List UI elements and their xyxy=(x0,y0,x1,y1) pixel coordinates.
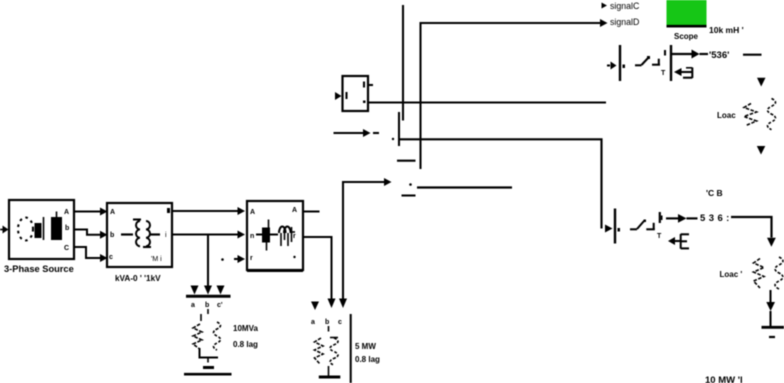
down arrow into load 2 xyxy=(767,238,776,247)
wire source C to transformer xyxy=(74,247,108,262)
wire load 2 internal xyxy=(769,290,771,302)
3-phase source port label B xyxy=(65,225,69,232)
load 2 inductor xyxy=(775,257,783,289)
load A inductor leg xyxy=(214,322,221,350)
goto tag signalC xyxy=(602,1,640,11)
input arrow into source xyxy=(0,226,9,234)
impedance tag 536 (CB2 row) xyxy=(700,213,730,224)
goto tag signalD xyxy=(610,17,639,27)
svg-text:kVA-0 ' '1kV: kVA-0 ' '1kV xyxy=(115,274,161,283)
breaker CB2 control port T xyxy=(657,233,662,240)
impedance tag 536 (CB1 row) xyxy=(709,50,729,61)
svg-text:10k mH ': 10k mH ' xyxy=(709,25,744,35)
3-phase source port label A xyxy=(64,209,69,216)
measurement subsystem output stub xyxy=(368,84,373,86)
breaker CB2 label text CB xyxy=(706,188,723,198)
load B resistor leg xyxy=(315,338,324,364)
breaker CB1 switch blade xyxy=(635,56,660,65)
junction dot near bus xyxy=(392,138,394,140)
vertical stub line A xyxy=(402,5,404,121)
load A ground xyxy=(184,368,232,375)
svg-text:T: T xyxy=(661,70,666,77)
load 2 resistor xyxy=(754,259,765,289)
svg-text:a: a xyxy=(311,319,315,326)
svg-text:0.8 lag: 0.8 lag xyxy=(355,355,380,364)
svg-text:c': c' xyxy=(217,302,223,309)
breaker CB1 input arrow xyxy=(607,62,617,70)
branch output B wire down to load B xyxy=(303,237,336,308)
short segment under bus xyxy=(397,160,416,162)
load B port labels a b c xyxy=(311,319,342,326)
svg-text:A: A xyxy=(110,209,115,216)
wire transformer B to branch with junction to load xyxy=(172,231,245,239)
breaker CB1 left bar xyxy=(619,45,621,81)
breaker CB2 node dot xyxy=(618,228,621,232)
bus wire to breaker CB2 xyxy=(399,139,613,232)
long wire measurement output to right xyxy=(368,101,606,103)
scope label xyxy=(674,32,699,41)
svg-text:i: i xyxy=(165,232,167,239)
down arrow out of load 2 xyxy=(766,302,775,311)
svg-text:Loac ': Loac ' xyxy=(720,270,743,279)
svg-text:b: b xyxy=(325,319,329,326)
3-phase source V1 icon xyxy=(18,212,62,241)
transformer T1 port label A xyxy=(110,209,115,216)
load 2 rating text cut at bottom xyxy=(705,375,743,383)
breaker CB1 node dot xyxy=(623,65,626,69)
svg-text:b: b xyxy=(65,225,69,232)
3-phase source V1 block outline xyxy=(9,200,74,259)
transformer T1 icon windings xyxy=(121,220,160,248)
wire after tag down to load 2 xyxy=(731,217,772,238)
breaker CB1 output wire with arrow xyxy=(672,50,708,59)
wire after 536 tag xyxy=(743,54,762,56)
svg-text:a: a xyxy=(191,302,195,309)
breaker CB2 switch blade xyxy=(630,220,655,230)
ground 3 xyxy=(762,327,784,337)
svg-text:Scope: Scope xyxy=(674,32,699,41)
wire to ground 3 xyxy=(769,311,771,326)
svg-text:n: n xyxy=(250,233,254,240)
measurement subsystem block xyxy=(343,76,369,111)
branch block input-c stub arrow xyxy=(221,255,245,263)
RLC branch icon inductor xyxy=(279,226,295,246)
measurement subsystem port ticks xyxy=(347,82,366,104)
svg-text:A: A xyxy=(292,207,297,214)
load A top bus bar xyxy=(186,295,231,298)
svg-text:b: b xyxy=(205,302,209,309)
branch output A stub xyxy=(303,211,320,213)
breaker CB1 control port T xyxy=(661,70,666,77)
breaker CB2 port tick xyxy=(661,216,663,221)
RLC branch port labels xyxy=(250,207,297,262)
svg-text:signalD: signalD xyxy=(610,17,639,27)
svg-text:10 MW 'l: 10 MW 'l xyxy=(705,375,743,383)
transformer T1 port label c xyxy=(109,254,113,261)
arrow into fault block xyxy=(334,129,380,137)
load A rating text 0.8 lag xyxy=(233,340,258,349)
svg-text:'C B: 'C B xyxy=(706,188,723,198)
svg-text:A: A xyxy=(64,209,69,216)
wire source A to transformer xyxy=(74,208,108,216)
breaker CB2 output wire with arrow xyxy=(666,214,698,223)
transformer T1 block outline xyxy=(107,203,172,267)
svg-text:r: r xyxy=(293,233,296,240)
load 1 label xyxy=(717,111,736,120)
wire segment to the right xyxy=(417,186,512,188)
node dot near measurement row xyxy=(409,183,412,186)
load B ground bar xyxy=(319,376,341,379)
load 1 resistor xyxy=(744,104,757,126)
load B phase a floating arrow xyxy=(311,302,319,311)
transformer T1 port label b xyxy=(110,232,114,239)
load A resistor leg xyxy=(193,314,202,349)
svg-text:5 MW: 5 MW xyxy=(355,342,376,351)
load B rating text 0.8 lag xyxy=(355,355,380,364)
breaker CB2 control from-tag xyxy=(668,234,689,249)
svg-text:b: b xyxy=(110,232,114,239)
load B connector tick xyxy=(328,326,330,332)
transformer T1 right port marks xyxy=(151,208,170,263)
3-phase source label xyxy=(4,264,74,274)
short segment lower xyxy=(402,194,416,196)
wire junction drop to load A xyxy=(207,235,209,287)
load A port labels a b c xyxy=(191,302,223,309)
breaker CB1 control from-tag xyxy=(674,68,692,79)
three-phase series RLC branch block outline xyxy=(247,201,303,271)
svg-text:'M i: 'M i xyxy=(151,256,162,263)
vertical stub line C xyxy=(398,112,400,146)
3-phase source port label C xyxy=(64,245,69,252)
svg-text:Loac: Loac xyxy=(717,111,736,120)
wire from measurement row down to load B phase c xyxy=(339,178,392,308)
load 2 label xyxy=(720,270,743,279)
breaker CB1 port tick xyxy=(664,50,666,56)
load A bottom wire xyxy=(200,348,219,363)
wire source B to transformer xyxy=(74,230,108,239)
transformer T1 label xyxy=(115,274,161,283)
load A rating text 10MVA xyxy=(233,324,258,333)
load B right edge line xyxy=(350,314,352,383)
load 1 inductor xyxy=(768,99,776,130)
breaker CB1 label text xyxy=(709,25,744,35)
svg-text:signalC: signalC xyxy=(610,1,640,11)
svg-text:r: r xyxy=(250,255,253,262)
svg-text:A: A xyxy=(250,209,255,216)
svg-text:3-Phase Source: 3-Phase Source xyxy=(4,264,74,274)
RLC branch icon resistor xyxy=(256,220,278,251)
svg-text:'536': '536' xyxy=(709,50,729,61)
svg-text:0.8 lag: 0.8 lag xyxy=(233,340,258,349)
svg-text:c: c xyxy=(109,254,113,261)
breaker CB1 right bar xyxy=(670,45,672,81)
down arrow out of load 1 xyxy=(757,146,766,155)
load A input arrows xyxy=(191,286,225,295)
svg-text:5 3 6 :: 5 3 6 : xyxy=(700,213,730,224)
goto tag wire signalD xyxy=(421,19,608,169)
svg-text:10MVa: 10MVa xyxy=(233,324,258,333)
load A connector tick xyxy=(207,309,209,314)
down arrow into load 1 xyxy=(757,78,766,87)
svg-text:T: T xyxy=(657,233,662,240)
measurement subsystem input arrow xyxy=(335,92,342,100)
scope block xyxy=(667,0,707,28)
wire transformer A to branch xyxy=(172,207,245,215)
breaker CB2 left bar xyxy=(614,209,616,244)
load B bottom connector xyxy=(328,366,330,376)
load B inductor leg xyxy=(330,338,338,366)
load B rating text 5 MW xyxy=(355,342,376,351)
breaker CB2 right bar xyxy=(659,212,661,223)
svg-text:c: c xyxy=(338,319,342,326)
svg-text:C: C xyxy=(64,245,69,252)
